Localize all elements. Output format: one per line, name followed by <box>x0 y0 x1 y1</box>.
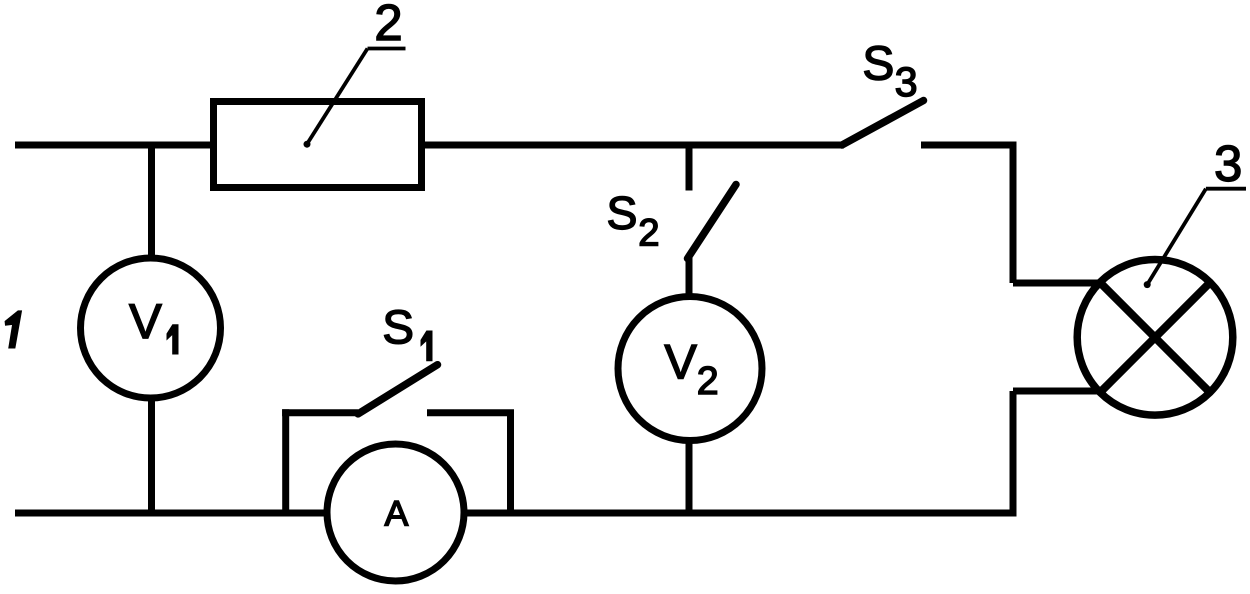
label A <box>385 501 409 526</box>
label S2 subscript 2 <box>640 219 657 246</box>
label 2 digit <box>377 4 400 40</box>
wire V1 top lead <box>148 145 155 265</box>
label S1 letter S <box>384 310 411 344</box>
label S3 subscript 3 <box>896 67 916 96</box>
leader dot for 3 <box>1144 281 1151 288</box>
wire S1 bypass left vertical <box>282 409 289 513</box>
switch S2 blade <box>688 185 737 259</box>
switch S1 blade <box>358 365 438 414</box>
lamp X cross <box>1101 283 1210 392</box>
lamp 3 circle <box>1077 260 1233 416</box>
wire V2 bottom lead <box>686 440 693 513</box>
wire S2 to V2 lead <box>686 256 693 300</box>
voltmeter V2 circle <box>618 297 762 441</box>
voltmeter V1 circle <box>81 258 221 398</box>
label S1 subscript 1 <box>421 331 432 361</box>
leader dot for 2 <box>304 141 311 148</box>
wire S1 bypass top-right horizontal <box>427 409 514 416</box>
label 3 digit <box>1216 145 1240 181</box>
resistor 2 (box) <box>214 102 422 188</box>
leader line for 3 <box>1147 189 1246 285</box>
wire top-middle horizontal (resistor to S3) <box>423 142 844 149</box>
wire V1 bottom lead <box>148 395 155 513</box>
switch S3 blade <box>842 101 924 146</box>
wire top-left horizontal <box>15 142 212 149</box>
wire S2 top stub <box>686 145 693 191</box>
label S2 letter S <box>609 197 636 230</box>
label V1 letter V <box>129 304 161 338</box>
label S3 letter S <box>865 46 893 80</box>
label V2 letter V <box>665 345 697 379</box>
leader line for 2 <box>307 49 406 145</box>
wire S3 right to corner and down <box>921 145 1013 283</box>
wire bottom horizontal <box>15 510 1017 517</box>
wire lamp bottom stub <box>1013 388 1103 395</box>
wire lamp top stub <box>1013 280 1103 287</box>
label V2 subscript 2 <box>699 367 717 395</box>
wire S1 bypass top-left horizontal <box>282 409 358 416</box>
ammeter A circle <box>327 444 464 581</box>
label V1 subscript 1 <box>167 325 178 354</box>
label 1 (italic, source) <box>5 311 21 348</box>
wire S1 bypass right vertical <box>507 413 514 513</box>
wire lamp bottom lead down <box>1010 391 1017 513</box>
